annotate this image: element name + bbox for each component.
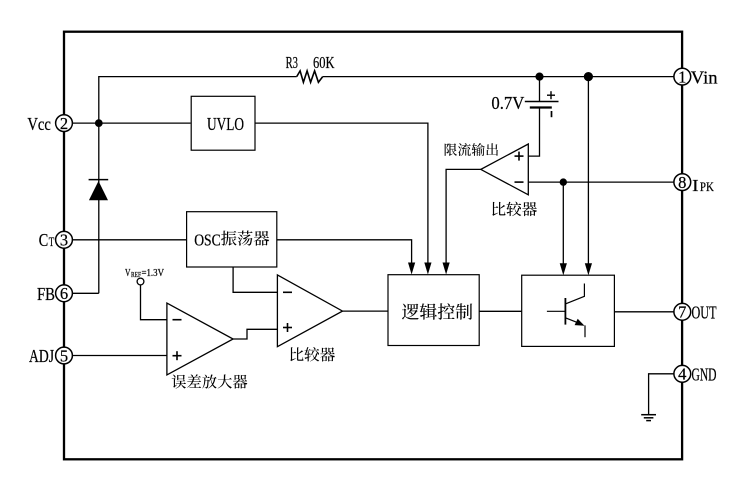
svg-text:4: 4 <box>678 365 686 384</box>
wire driver to OUT pin <box>614 311 674 313</box>
wire logic control to driver box <box>479 310 522 312</box>
wire limit comparator output to logic control <box>446 169 481 263</box>
op-amp comparator (PWM) <box>277 275 342 347</box>
wire FB pin to diode branch <box>73 292 99 294</box>
junction dot IPK wire <box>560 178 567 185</box>
transistor Q1 collector <box>565 284 584 304</box>
UVLO box U2 <box>191 96 255 150</box>
error amp minus sign <box>173 319 182 321</box>
error amp plus sign <box>173 355 182 357</box>
battery 0.7V top plate <box>525 101 559 103</box>
wire GND pin to ground <box>649 374 675 415</box>
svg-text:3: 3 <box>60 231 68 250</box>
wire VREF to error amp minus input <box>141 285 167 320</box>
wire CT pin to OSC <box>72 239 187 241</box>
wire resistor to Vin pin <box>323 76 675 78</box>
outer IC boundary box <box>64 32 682 460</box>
diode D1 (triangle, pointing up) <box>89 181 108 200</box>
arrowhead into driver (left) <box>560 263 567 275</box>
wire battery to limit comparator plus input <box>528 108 539 157</box>
junction dot Vcc node <box>95 119 103 127</box>
svg-text:FB: FB <box>37 284 55 304</box>
label error amplifier <box>172 374 248 388</box>
node VREF terminal circle <box>137 278 144 285</box>
arrowhead into driver (right) <box>585 263 592 275</box>
op-amp error amplifier <box>167 303 233 375</box>
battery minus sign <box>551 111 553 117</box>
wire IPK pin to limit comparator minus <box>528 181 674 183</box>
op-amp current limit comparator (points left) <box>481 144 529 195</box>
arrowhead OSC into logic <box>408 263 415 275</box>
label current-limit output <box>445 143 498 156</box>
wire IPK junction down into driver <box>562 182 564 264</box>
svg-text:5: 5 <box>60 346 68 365</box>
resistor R3 zigzag <box>297 71 323 82</box>
driver/output transistor box <box>522 275 615 346</box>
svg-text:0.7V: 0.7V <box>491 93 524 113</box>
battery 0.7V bottom plate <box>530 106 552 108</box>
pin 7 OUT circle <box>674 303 691 320</box>
svg-text:1: 1 <box>678 67 686 86</box>
arrowhead UVLO into logic <box>424 263 431 275</box>
svg-text:OSC: OSC <box>194 230 221 249</box>
svg-text:OUT: OUT <box>692 303 717 323</box>
wire top rail down into driver <box>587 77 589 264</box>
wire error amp output to comparator plus <box>233 329 277 339</box>
svg-text:UVLO: UVLO <box>207 114 244 134</box>
svg-text:PK: PK <box>700 180 714 194</box>
limit comparator plus sign <box>515 155 524 157</box>
svg-text:8: 8 <box>678 173 686 192</box>
pin 2 Vcc circle <box>56 115 73 132</box>
svg-text:2: 2 <box>60 114 68 133</box>
pin 4 GND circle <box>674 365 691 382</box>
transistor Q1 emitter with arrow <box>565 318 582 325</box>
label OSC oscillator CJK <box>221 231 269 246</box>
svg-text:6: 6 <box>60 284 68 303</box>
arrowhead limit comp into logic <box>443 263 450 275</box>
ground symbol <box>641 414 656 416</box>
pin 3 CT circle <box>56 231 73 248</box>
pin 8 IPK circle <box>674 174 691 191</box>
svg-text:I: I <box>692 176 699 195</box>
wire Vcc junction up to top rail <box>99 77 297 124</box>
wire comparator output to logic control <box>343 310 389 312</box>
comparator plus sign <box>283 327 292 329</box>
transistor Q1 base bar <box>564 298 566 325</box>
svg-text:=1.3V: =1.3V <box>142 268 165 279</box>
wire OSC bottom output to comparator minus <box>233 267 277 292</box>
wire ADJ pin to error amp plus <box>73 355 167 357</box>
junction dot top rail / battery <box>535 73 543 81</box>
pin 5 ADJ circle <box>56 347 73 364</box>
wire Vcc node down through diode to FB <box>98 123 100 293</box>
label comparator (limit) <box>492 202 537 217</box>
diode D1 (cathode bar) <box>89 179 109 181</box>
svg-text:GND: GND <box>692 365 717 385</box>
label comparator (PWM) <box>290 347 335 362</box>
wire Vcc pin to UVLO <box>72 122 190 124</box>
svg-text:ADJ: ADJ <box>29 346 54 366</box>
svg-text:7: 7 <box>678 303 686 322</box>
wire UVLO output to logic control <box>255 123 428 263</box>
label logic control <box>402 303 472 320</box>
OSC oscillator box <box>187 212 277 267</box>
wire top rail down to battery <box>539 77 541 102</box>
pin 6 FB circle <box>56 285 73 302</box>
svg-text:Vin: Vin <box>691 67 718 87</box>
pin 1 Vin circle <box>674 68 691 85</box>
transistor Q1 base wire <box>547 310 566 312</box>
limit comparator minus sign <box>515 181 524 183</box>
junction dot top rail / driver feed <box>584 72 593 81</box>
comparator minus sign <box>283 291 292 293</box>
logic control box <box>388 275 479 346</box>
svg-text:Vcc: Vcc <box>27 114 51 134</box>
wire OSC right output to logic control <box>277 240 412 264</box>
svg-text:C: C <box>39 230 49 250</box>
svg-text:60K: 60K <box>313 53 335 72</box>
battery plus sign <box>547 94 555 96</box>
svg-text:T: T <box>49 234 55 249</box>
svg-text:R3: R3 <box>286 53 298 72</box>
